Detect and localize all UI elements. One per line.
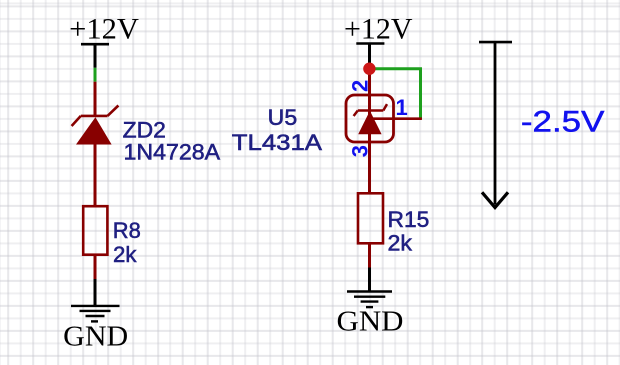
- svg-text:+12V: +12V: [344, 13, 413, 45]
- svg-text:TL431A: TL431A: [232, 130, 323, 155]
- svg-text:2k: 2k: [113, 242, 137, 267]
- svg-text:R8: R8: [113, 218, 141, 243]
- svg-text:2: 2: [348, 80, 373, 92]
- svg-text:U5: U5: [268, 105, 298, 130]
- svg-text:3: 3: [348, 145, 373, 157]
- svg-text:GND: GND: [63, 320, 128, 352]
- svg-text:2k: 2k: [388, 230, 414, 255]
- svg-text:R15: R15: [388, 207, 430, 232]
- svg-text:-2.5V: -2.5V: [521, 105, 605, 138]
- svg-text:1N4728A: 1N4728A: [124, 139, 221, 164]
- svg-text:GND: GND: [337, 305, 404, 337]
- svg-text:+12V: +12V: [69, 13, 139, 45]
- svg-text:1: 1: [396, 95, 408, 120]
